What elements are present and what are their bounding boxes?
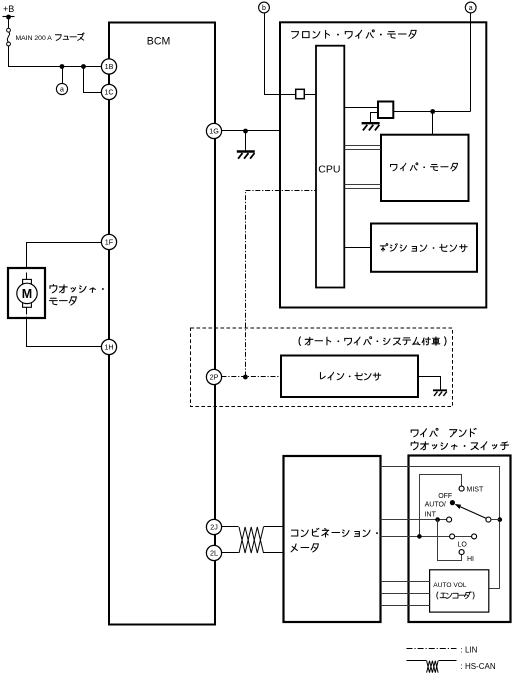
svg-text:M: M (22, 287, 32, 301)
svg-text:b: b (262, 5, 266, 12)
svg-text:1F: 1F (105, 238, 114, 247)
junction AUTO/INT-HI (435, 517, 440, 522)
label washer motor (49, 285, 103, 305)
combination meter box (284, 456, 381, 622)
junction +B (6, 15, 11, 20)
wiper motor M2 box (381, 135, 469, 201)
svg-text:BCM: BCM (147, 36, 171, 48)
contact pivot (486, 517, 491, 522)
wire combo to encoder 2 (381, 593, 430, 595)
svg-text:LO: LO (458, 542, 468, 549)
junction to 1C (81, 64, 86, 69)
svg-text:2L: 2L (210, 549, 218, 558)
washer motor box (8, 268, 45, 318)
wire square to motor (394, 111, 471, 113)
bus CPU-motor pair 2 (345, 185, 381, 189)
wire to 1C (84, 67, 102, 93)
svg-text:+B: +B (3, 4, 14, 14)
connector 1H (101, 339, 116, 354)
wire +B to fuse (8, 17, 10, 29)
bus CPU-motor pair 1 (345, 146, 381, 150)
label encoder (437, 592, 474, 599)
svg-text:MIST: MIST (467, 487, 484, 494)
ground (rain sensor) (433, 390, 447, 396)
label MAIN 200 A fuse (16, 33, 85, 42)
contact LO left (450, 534, 455, 539)
legend HS-CAN symbol (407, 661, 457, 673)
contact AUTO/INT (447, 517, 452, 522)
wire LO bridge (455, 536, 472, 538)
wire to ground (245, 131, 247, 151)
AUTO VOL encoder box (430, 570, 489, 612)
junction switch common (498, 517, 503, 522)
wire connector to CPU (305, 94, 317, 96)
wire combo to LO contact (381, 536, 450, 538)
ground (1G) (237, 152, 255, 159)
motor M1 washer (17, 273, 37, 315)
legend LIN line (407, 648, 457, 650)
connector 2J (206, 519, 221, 534)
svg-text:OFF: OFF (438, 493, 452, 500)
front wiper motor box (280, 22, 486, 307)
svg-text:1B: 1B (105, 62, 114, 71)
wire combo to encoder 1 (381, 581, 430, 583)
auto wiper system dashed box (191, 328, 453, 407)
label position sensor (380, 244, 467, 252)
position sensor box (371, 224, 477, 272)
wire rain sensor to ground (419, 377, 441, 390)
node a (top-left) (56, 83, 67, 94)
contact MIST (459, 486, 464, 491)
wire CPU to relay square (345, 107, 379, 109)
wire LIN rain sensor to CPU (dash-dot) (245, 191, 247, 377)
svg-text:2J: 2J (210, 523, 218, 532)
twisted pair HS-CAN (2J/2L) (239, 527, 264, 553)
connector 1F (101, 234, 116, 249)
connector 2L (206, 545, 221, 560)
connector 1B (101, 59, 116, 74)
wire b to connector (265, 13, 296, 95)
wire twist to combination meter (bottom) (264, 552, 284, 554)
svg-text:1C: 1C (104, 88, 113, 97)
label auto wiper system (299, 337, 446, 346)
label front wiper motor (292, 30, 417, 39)
wire square to ground (371, 113, 379, 123)
svg-text:AUTO/: AUTO/ (425, 502, 446, 509)
wire 2J to twist (222, 526, 239, 528)
wire twist to combination meter (top) (264, 526, 284, 528)
wire junction to wiper motor (432, 112, 434, 135)
wire MIST loop (420, 475, 462, 537)
wire CPU to position sensor (345, 247, 371, 249)
svg-text:: LIN: : LIN (461, 645, 478, 654)
svg-text:2P: 2P (210, 373, 219, 382)
contact HI (459, 550, 464, 555)
svg-text:HI: HI (467, 556, 474, 563)
node a (top right) (465, 2, 476, 13)
wire +B terminal tick (3, 16, 15, 18)
BCM box (109, 23, 215, 625)
junction LIN (243, 375, 248, 380)
junction LO-MIST loop (417, 534, 422, 539)
svg-text:CPU: CPU (318, 164, 340, 176)
relay square (motor drive) (378, 102, 393, 119)
wiper washer switch box (409, 456, 511, 623)
wire 1F to washer motor (27, 243, 102, 269)
svg-text:INT: INT (425, 512, 437, 519)
wire combo to switch common (381, 467, 500, 589)
ground (motor drive) (362, 123, 380, 130)
label wiper and washer switch (411, 428, 476, 436)
wire to node a (62, 67, 64, 84)
contact LO right (472, 534, 477, 539)
wire fuse to bus (9, 46, 102, 67)
wire pivot to common (491, 519, 500, 521)
svg-text:1G: 1G (209, 127, 219, 136)
connector 1G (206, 123, 221, 138)
node b (top) (259, 2, 270, 13)
wire LIN horizontal to CPU (246, 190, 317, 192)
svg-text:MAIN 200 A: MAIN 200 A (16, 35, 53, 42)
label wiper motor (391, 163, 458, 171)
label rain sensor (320, 372, 380, 380)
junction to a (60, 64, 65, 69)
junction motor feed (430, 109, 435, 114)
svg-text:a: a (60, 86, 64, 93)
CPU U1 box (316, 46, 344, 288)
rain sensor box (281, 356, 418, 398)
junction 1G ground (243, 129, 248, 134)
wire combo to encoder 3 (381, 605, 430, 607)
svg-text:a: a (469, 5, 473, 12)
wire combo to AUTO/INT contact (381, 519, 447, 521)
svg-text:1H: 1H (104, 343, 113, 352)
wire washer motor to 1H (27, 317, 102, 347)
wire 2P LIN (dash-dot) (222, 376, 281, 378)
wire 2L to twist (222, 552, 239, 554)
switch pole dot (450, 500, 455, 505)
fuse MAIN 200 A (7, 28, 11, 46)
wire a down (470, 13, 472, 112)
svg-text:AUTO VOL: AUTO VOL (433, 582, 467, 589)
label combination meter (291, 528, 378, 552)
wire 1G to motor case (222, 130, 281, 132)
connector 2P (206, 369, 221, 384)
connector square (b line) (296, 89, 305, 98)
wire to HI contact (438, 520, 462, 561)
switch arm with arrow (455, 504, 487, 519)
svg-text:: HS-CAN: : HS-CAN (461, 662, 496, 671)
connector 1C (101, 84, 116, 99)
